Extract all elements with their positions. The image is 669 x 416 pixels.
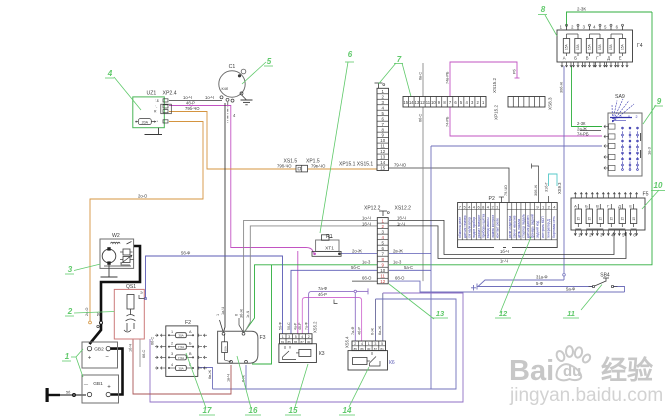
G4 bottom pins fuse 4: [595, 62, 597, 67]
svg-text:XS15.2: XS15.2: [492, 77, 497, 93]
svg-text:4а-Р: 4а-Р: [294, 322, 298, 330]
label 5 leader line: [242, 62, 266, 84]
wire 1e-3 green branch down to F3 bottom-right pin: [252, 265, 272, 364]
UZ1 connector XP2.4 pins: [161, 104, 172, 114]
relay K6 connector strip XS5.4: [352, 341, 386, 351]
QS1 right top pin: [139, 295, 146, 299]
svg-text:Б: Б: [574, 56, 577, 61]
svg-text:15: 15: [289, 406, 298, 415]
G4 pin 6 top: [622, 26, 624, 30]
svg-text:сигнализатор: сигнализатор: [468, 217, 472, 238]
svg-text:свечи накалив: свечи накалив: [512, 215, 516, 238]
svg-text:7,5А: 7,5А: [178, 345, 184, 349]
wire 1b-Ch from XP12.2 pin2 down to F3 top pin: [245, 226, 377, 332]
svg-text:15А: 15А: [565, 43, 569, 50]
terminal tick of 7a-F wire: [357, 290, 369, 292]
ground below UZ1: [158, 128, 160, 135]
svg-text:15: 15: [380, 166, 385, 171]
svg-text:лампа контрол: лампа контрол: [491, 215, 495, 238]
dash-dot center line below C1: [227, 102, 229, 123]
svg-text:10: 10: [380, 268, 385, 273]
svg-text:GВ2: GВ2: [94, 347, 104, 353]
fuse box F2: [166, 326, 198, 377]
svg-text:XP15.2: XP15.2: [494, 104, 499, 120]
G4 fuse 6: [619, 39, 625, 54]
svg-text:11: 11: [567, 309, 575, 318]
label 1 leader lines: [71, 356, 76, 358]
svg-text:14: 14: [409, 100, 414, 105]
voltage regulator UZ1 green box: [133, 97, 165, 128]
svg-text:13: 13: [415, 100, 420, 105]
svg-text:5б-С: 5б-С: [351, 265, 360, 270]
wire 1o-Ch from UZ1 to C1: [169, 100, 222, 102]
svg-text:Э: Э: [140, 291, 143, 295]
wire 30b-Zh from G4 down to SB4 node: [563, 66, 565, 273]
svg-text:QS1: QS1: [126, 284, 136, 290]
svg-text:W2: W2: [112, 233, 120, 239]
svg-text:11: 11: [426, 100, 431, 105]
label 11 leader line: [581, 285, 602, 311]
svg-text:15А: 15А: [609, 43, 613, 50]
SA9 contact dots columns: [622, 127, 624, 170]
connector strip XP15.2 XS15.2 horizontal 15 cells: [403, 97, 486, 108]
P2 bottom edge gaps: [494, 247, 503, 249]
svg-text:5: 5: [295, 335, 297, 339]
svg-text:86: 86: [294, 340, 298, 344]
svg-text:13: 13: [436, 309, 445, 318]
wire 6b-O left of XP12.2 pin12: [352, 280, 377, 282]
F5 top pins fuse 5: [618, 193, 620, 199]
svg-text:14: 14: [380, 160, 385, 165]
F2 fuse 1 left pin: [168, 334, 176, 336]
svg-text:2: 2: [636, 115, 638, 119]
svg-text:подсв прибор: подсв прибор: [472, 217, 476, 238]
G4 fuse 5: [608, 39, 614, 54]
svg-text:+: +: [88, 356, 92, 362]
G4 bottom pins fuse 1: [561, 62, 563, 67]
svg-text:79-ЧО: 79-ЧО: [394, 163, 407, 168]
SA9 right inner edge dashes: [640, 133, 642, 141]
wire blue from F2 G terminal down to loop: [198, 368, 213, 390]
svg-text:К3: К3: [319, 351, 325, 357]
svg-text:Е: Е: [619, 56, 622, 61]
svg-text:1: 1: [216, 314, 220, 316]
label 13 leader line: [389, 284, 434, 319]
wire 1a-Ch black from C1 down to F3: [224, 103, 226, 332]
svg-text:30А: 30А: [178, 334, 183, 338]
svg-text:2о-О: 2о-О: [85, 308, 89, 316]
svg-text:контакт реле: контакт реле: [496, 218, 500, 238]
svg-text:74-РБ: 74-РБ: [446, 116, 450, 127]
svg-text:1г-Ч: 1г-Ч: [500, 258, 508, 263]
svg-text:Е: Е: [629, 204, 632, 209]
svg-text:F3: F3: [260, 335, 266, 341]
svg-text:К6: К6: [389, 360, 395, 366]
svg-text:1г-Ч: 1г-Ч: [246, 310, 250, 318]
svg-text:задний ход: задний ход: [535, 221, 539, 238]
svg-text:1а-Ч: 1а-Ч: [221, 307, 225, 315]
svg-text:5б-Ф: 5б-Ф: [279, 322, 283, 330]
F2 fuse 1: [176, 333, 187, 338]
svg-text:4: 4: [301, 335, 303, 339]
svg-text:15А: 15А: [621, 43, 625, 50]
svg-text:60А: 60А: [224, 346, 228, 351]
junction circle on battery cable: [100, 321, 103, 324]
svg-text:3б-Ж: 3б-Ж: [239, 308, 243, 318]
svg-text:фонарь задний: фонарь задний: [531, 214, 535, 238]
W2 motor circle: [102, 249, 116, 263]
wire blue from F3 bottom right pin down to loop: [245, 365, 247, 389]
F5 fuse 5: [619, 209, 625, 224]
G4 bottom pins fuse 6: [617, 62, 619, 67]
svg-text:5б-С: 5б-С: [287, 322, 291, 330]
svg-text:А: А: [574, 204, 577, 209]
W2 inner gray band: [104, 265, 131, 267]
wire 79v-ChO from XS1.5 to XP15.1 pin 15: [308, 168, 377, 170]
svg-text:GВ1: GВ1: [93, 381, 103, 387]
svg-text:SA9: SA9: [615, 94, 625, 100]
wire 2o-O orange from UZ1 down to battery area: [90, 122, 203, 322]
svg-text:10: 10: [431, 100, 436, 105]
svg-text:2: 2: [67, 307, 73, 316]
F5 top pins fuse 2: [585, 193, 587, 199]
wire 6-Zh from K6 strip up to blue loop: [375, 299, 377, 341]
F2 fuse 2 left pin: [168, 346, 176, 348]
svg-text:указат поворот: указат поворот: [477, 214, 481, 238]
F5 bottom pins fuse 1: [574, 230, 576, 236]
svg-text:В: В: [586, 56, 589, 61]
wire 2v-Zh right of XP12.2 pin7: [389, 253, 431, 255]
relay K3 box: [279, 344, 317, 363]
svg-text:15: 15: [599, 217, 603, 221]
connector strip XS8.3 horizontal: [508, 97, 545, 108]
connector XS9.3 cyan bracket: [549, 174, 558, 186]
connector strip XP15.1 XS15.1 vertical 15 cells: [377, 88, 389, 170]
arrow through W2 contacts: [121, 256, 132, 264]
svg-text:стартер педаль: стартер педаль: [522, 214, 526, 238]
svg-text:14: 14: [343, 406, 352, 415]
relay K6 box: [348, 351, 388, 370]
svg-text:1: 1: [368, 342, 370, 346]
label 7 leader lines: [379, 63, 397, 84]
svg-text:F5: F5: [643, 192, 649, 198]
GB1 terminals: [87, 392, 91, 396]
svg-text:2в-Ж: 2в-Ж: [393, 248, 403, 253]
svg-text:12: 12: [380, 279, 385, 284]
label 9 leader line: [643, 105, 656, 124]
svg-text:5б-Ф: 5б-Ф: [181, 251, 190, 256]
svg-text:12: 12: [499, 309, 508, 318]
svg-text:датчик давлен: датчик давлен: [526, 215, 530, 238]
wire ground cable to GB1: [60, 394, 86, 396]
wire thick cable GB2 minus to GB1: [110, 349, 123, 395]
svg-text:5а-Ф: 5а-Ф: [566, 287, 575, 292]
QS1 switch symbol: [130, 309, 132, 315]
svg-text:4б-Р: 4б-Р: [318, 292, 327, 297]
svg-text:ХТ1: ХТ1: [325, 245, 334, 251]
svg-text:XS9.3: XS9.3: [557, 182, 562, 194]
svg-text:1: 1: [620, 115, 622, 119]
svg-text:'-: '-: [156, 105, 158, 109]
svg-text:6в-Ж: 6в-Ж: [208, 370, 212, 379]
svg-text:1б-Ч: 1б-Ч: [129, 343, 133, 352]
svg-text:4: 4: [361, 342, 363, 346]
svg-text:85: 85: [288, 340, 292, 344]
SA9 rotary arrows blue dashed: [611, 104, 614, 122]
svg-text:79-ЧО: 79-ЧО: [504, 185, 508, 196]
G4 internal link bars: [567, 33, 579, 35]
wire 31a-F horizontal to SB4 branch: [478, 280, 564, 287]
terminal block P2 box: [458, 203, 558, 248]
svg-text:Б: Б: [585, 204, 588, 209]
F5 top pins fuse 1: [574, 193, 576, 199]
F5 top pins fuse 4: [607, 193, 609, 199]
K3 contact: [284, 346, 286, 349]
P2 bottom strip line: [458, 239, 558, 241]
wire brown from QS1 to F3 bottom pin: [133, 339, 231, 394]
label 8 leader line: [545, 15, 557, 36]
F2 fuse 4 left pin: [168, 367, 176, 369]
wire 7a-F violet down to K6 pin: [354, 293, 356, 341]
wire 2-3K green top loop from G4 pin1 to right side: [567, 12, 653, 27]
svg-text:15А: 15А: [576, 43, 580, 50]
K6 coil: [353, 358, 368, 365]
junction circle on 30b-Zh wire: [563, 274, 566, 277]
F5 bottom pins fuse 2: [585, 230, 587, 236]
svg-text:6б-С: 6б-С: [151, 336, 155, 345]
svg-text:7а-Ф: 7а-Ф: [318, 286, 327, 291]
svg-text:6б-С: 6б-С: [142, 349, 146, 358]
G4 pin 2 top: [577, 26, 579, 30]
svg-text:6б-О: 6б-О: [395, 276, 405, 281]
svg-text:10: 10: [380, 138, 385, 143]
svg-text:Д: Д: [618, 204, 621, 209]
ground right of C1: [242, 95, 247, 100]
F5 fuse 6: [630, 209, 636, 224]
svg-text:74в-РБ: 74в-РБ: [446, 71, 450, 84]
wire 1o-Ch from XP12.2 pin1 down to F3 top pin: [244, 220, 378, 331]
svg-text:1о-Ч: 1о-Ч: [205, 95, 214, 100]
svg-text:UZ1: UZ1: [147, 91, 157, 97]
P2 top cells row and columns: [461, 203, 463, 240]
UZ1 bottom pin: [163, 120, 168, 123]
svg-text:Рб: Рб: [513, 68, 517, 74]
W2 inductor coil: [111, 242, 121, 243]
G4 pin 5 top: [610, 26, 612, 30]
wire 1g-Ch from XP12.2 pin2 to F5: [389, 226, 626, 259]
wire 6v-S gray above XP15.2: [422, 63, 424, 97]
P2 top stub right: [548, 196, 550, 203]
svg-text:4: 4: [171, 363, 173, 367]
wire blue loop around K6 right side: [213, 299, 457, 389]
ignition switch SA9 box: [608, 113, 642, 176]
wire thick cable QS1 to GB2 plus terminal: [90, 324, 102, 344]
wire thick battery cable from W2 down to QS1: [101, 246, 140, 321]
svg-text:Bai: Bai: [509, 355, 554, 387]
svg-text:+: +: [107, 385, 111, 391]
P2 middle gap divider: [506, 203, 508, 240]
svg-text:2: 2: [171, 342, 173, 346]
svg-text:6-Ж: 6-Ж: [371, 328, 375, 335]
wire 74-RB magenta from XP15.2 to SA9: [450, 107, 602, 136]
svg-text:4б-Р: 4б-Р: [298, 322, 302, 330]
svg-text:4б-Р: 4б-Р: [357, 326, 361, 335]
svg-text:30А: 30А: [178, 366, 183, 370]
svg-text:В: В: [596, 204, 599, 209]
label 12 leader line: [500, 237, 531, 313]
svg-text:9: 9: [657, 97, 662, 106]
svg-text:79б-ЧО: 79б-ЧО: [277, 164, 292, 169]
svg-text:1: 1: [65, 352, 70, 361]
svg-text:10: 10: [654, 181, 663, 190]
wire stub with corner near 4b-R: [334, 300, 338, 304]
F5 fuse 2: [586, 209, 592, 224]
G4 fuse 4: [597, 39, 603, 54]
G4 bottom pins fuse 2: [573, 62, 575, 67]
ground below W2 motor: [108, 265, 110, 277]
svg-text:приборы щитка: приборы щитка: [482, 214, 486, 238]
wire 4b-R magenta from UZ1 pin to XT1 terminal: [169, 106, 314, 253]
F2 fuse 2: [176, 344, 187, 349]
G4 fuse 3: [586, 39, 592, 54]
svg-text:11: 11: [380, 273, 385, 278]
svg-text:30б-Ж: 30б-Ж: [560, 81, 564, 93]
wire 6b-S gray below XP15.2 down to node: [422, 107, 424, 281]
svg-text:бортовая сеть: бортовая сеть: [552, 216, 556, 238]
C1 bottom pins: [220, 96, 223, 99]
svg-text:1: 1: [171, 330, 173, 334]
relay K3 connector strip XS5.2: [280, 334, 313, 344]
tick above XP12.2: [382, 211, 384, 216]
wire 1e-3 green from XP12.2 pin9 to F3 top pin: [245, 265, 378, 332]
W2 relay contacts: [123, 249, 130, 255]
F5 bottom pins fuse 5: [618, 230, 620, 236]
wire 1b-Ch from XP12.2 pin1 to F5: [389, 220, 614, 254]
F2 fuse 4: [176, 366, 187, 371]
svg-text:15А: 15А: [588, 43, 592, 50]
svg-text:7,5А: 7,5А: [178, 356, 184, 360]
SA9 top inner blue bar: [610, 117, 632, 119]
svg-text:1е-3: 1е-3: [393, 259, 402, 264]
wire 74v-RB magenta above XP15.2: [450, 62, 517, 97]
svg-text:6б-С: 6б-С: [419, 113, 423, 122]
svg-text:2о-Ж: 2о-Ж: [352, 248, 362, 253]
svg-text:4б-Р: 4б-Р: [186, 101, 195, 106]
svg-text:79б-ЧО: 79б-ЧО: [185, 106, 200, 111]
terminal tick of 5-F wire: [476, 284, 478, 290]
label 2 leader line: [74, 312, 114, 314]
svg-text:11: 11: [380, 144, 385, 149]
svg-text:81: 81: [281, 340, 285, 344]
battery GB1 box: [82, 375, 119, 403]
svg-text:2-3К: 2-3К: [577, 7, 586, 12]
F5 fuse 4: [608, 209, 614, 224]
svg-text:−: −: [105, 355, 109, 361]
svg-text:Р2: Р2: [489, 196, 495, 202]
XT1 terminal right: [338, 253, 340, 255]
terminal tick near 5a-F wire: [473, 285, 475, 291]
F5 bottom pins fuse 6: [630, 230, 632, 236]
tick above XP15.1: [378, 83, 380, 88]
resistor unit R1 XT1 box: [316, 240, 339, 251]
svg-text:обмотка реле: обмотка реле: [458, 217, 462, 238]
F5 bottom pins fuse 3: [596, 230, 598, 236]
svg-text:15: 15: [610, 217, 614, 221]
F5 top pins fuse 3: [596, 193, 598, 199]
svg-text:А: А: [563, 56, 566, 61]
svg-text:1в-Ч: 1в-Ч: [227, 374, 231, 382]
svg-text:15: 15: [632, 217, 636, 221]
connector XS1.5 / XP1.5: [296, 165, 308, 172]
svg-text:вывод массы: вывод массы: [486, 217, 490, 238]
wire 5a-S blue from XP12.2 pin10 right to x431: [389, 269, 431, 271]
battery switch QS1 red box: [114, 289, 144, 339]
wire 5b-S blue from K3 pin2 up to XP12.2 pin10: [291, 270, 377, 334]
label 4 leader line: [114, 77, 141, 110]
wire SB4 right side down to 5a-F line: [613, 287, 625, 293]
fuse box G4: [557, 30, 633, 62]
P2 top stub 30b-Zh: [532, 166, 539, 203]
watermark Baidu Jingyan logo: [555, 346, 591, 380]
label 6 leader line: [320, 62, 348, 233]
F2 fuse 2 right pin: [186, 346, 194, 348]
svg-text:jingyan.baidu.com: jingyan.baidu.com: [509, 385, 663, 406]
svg-text:3: 3: [374, 342, 376, 346]
svg-text:реле стартера: реле стартера: [508, 216, 512, 238]
wire 2a-Zh to SA9: [580, 130, 601, 132]
wire 5-F from tick to SB4 switch: [477, 286, 593, 288]
junction circle on orange wire: [89, 321, 92, 324]
G4 bottom pins fuse 5: [606, 62, 608, 67]
wire 4b-R magenta drop from XT1 node to K3 pin3: [297, 251, 299, 334]
svg-text:1в-3: 1в-3: [647, 146, 652, 155]
UZ1 internal fuse 20A: [138, 119, 151, 125]
F2 fuse 3 left pin: [168, 356, 176, 358]
svg-text:31б-Г: 31б-Г: [545, 182, 549, 192]
svg-text:15: 15: [621, 217, 625, 221]
svg-text:4: 4: [107, 69, 113, 78]
wire 7a-F violet from K3 pin5 over to K6: [309, 291, 355, 334]
G4 pin 4 top: [599, 26, 601, 30]
svg-text:13: 13: [380, 155, 385, 160]
svg-text:1е-3: 1е-3: [362, 259, 371, 264]
C1 mark dot: [238, 75, 241, 78]
fuse unit F3 box: [218, 331, 258, 363]
G4 pin 1 top: [566, 26, 568, 30]
GB2 terminals: [87, 346, 91, 350]
P2 top stub with tick: [500, 197, 502, 203]
svg-text:6: 6: [348, 50, 353, 59]
wire 79b-ChO orange from UZ1 to XS1.5: [169, 112, 296, 170]
label 14 leader line: [349, 367, 369, 407]
C1 top-right terminal: [241, 69, 246, 74]
svg-text:Д: Д: [607, 56, 610, 61]
wire F5 pin4 down: [613, 232, 615, 236]
svg-text:5а-С: 5а-С: [404, 265, 413, 270]
XT1 terminal left: [314, 253, 316, 255]
svg-text:20А: 20А: [142, 120, 149, 124]
label 17 leader line: [186, 353, 206, 408]
F2 fuse 1 right pin: [186, 334, 194, 336]
svg-text:31а-Ф: 31а-Ф: [536, 275, 548, 280]
wire 5b-F blue from QS1 up and right to K3 pin1: [146, 256, 283, 334]
SA9 left pin contacts: [609, 124, 616, 129]
svg-text:XS12.2: XS12.2: [395, 206, 412, 212]
G4 fuse 2: [575, 39, 581, 54]
svg-text:12: 12: [420, 100, 425, 105]
wire blue from XS5.2 area to SA9 lower pin: [431, 145, 602, 147]
wire gray from QS1 area down: [139, 339, 141, 367]
